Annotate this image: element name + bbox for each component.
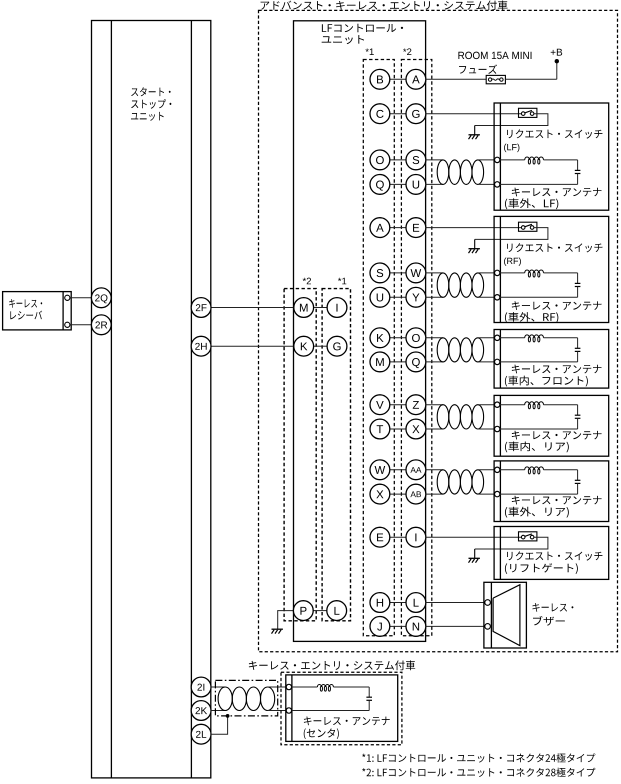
wire pin X to pin AB <box>390 493 406 495</box>
pin O (*2 connector) <box>406 328 426 348</box>
pin I (*2 connector) <box>406 527 426 547</box>
box: keyless antenna interior front <box>494 330 609 389</box>
wire A to fuse <box>426 78 486 80</box>
pin Z (*2 connector) <box>406 395 426 415</box>
request switch RF <box>519 222 537 231</box>
pin W (*1 connector) <box>370 460 390 480</box>
shield dash-dot box <box>215 680 277 716</box>
pin U (*2 connector) <box>406 175 426 195</box>
pin M (*2) <box>294 298 314 318</box>
label: request switch (liftgate) <box>507 551 602 560</box>
pin E (*2 connector) <box>406 218 426 238</box>
pin A (*1 connector) <box>370 218 390 238</box>
switch return wire to ground <box>475 537 548 549</box>
request switch LF <box>519 108 537 117</box>
wire L to buzzer <box>426 602 485 604</box>
label: start/stop unit <box>131 87 170 96</box>
pin U (*1 connector) <box>370 287 390 307</box>
wire pin Q to pin U <box>390 183 406 185</box>
label: ROOM 15A MINI fuse <box>458 52 531 59</box>
wire fuse to +B <box>505 78 556 80</box>
label: request switch (RF) <box>507 243 602 252</box>
pin B (*1 connector) <box>370 69 390 89</box>
pin AB (*2 connector) <box>406 484 426 504</box>
pin K (*1 connector) <box>370 328 390 348</box>
pin W (*2 connector) <box>406 263 426 283</box>
twisted pair 2I/2K to center antenna <box>211 686 225 688</box>
wire pin U to pin Y <box>390 296 406 298</box>
box: request switch liftgate <box>494 527 609 580</box>
label: keyless entry system <box>249 660 415 670</box>
pin E (*1 connector) <box>370 527 390 547</box>
label: request switch (LF) <box>507 129 602 138</box>
wire 2L to shield <box>211 716 228 734</box>
twisted pair wires rows VZ-TX <box>426 404 443 406</box>
keyless antenna interior front coil <box>495 335 500 340</box>
group box: request switch LF + keyless antenna exterior LF <box>494 103 609 210</box>
pin 2I <box>191 677 211 697</box>
wire N to buzzer <box>426 625 485 627</box>
box: keyless antenna interior rear <box>494 395 609 456</box>
wire to liftgate <box>426 536 522 538</box>
fuse ROOM 15A MINI <box>486 75 505 83</box>
footnote *2 <box>362 768 595 777</box>
label: keyless antenna (interior, front) <box>512 365 602 374</box>
keyless receiver box <box>3 292 72 330</box>
box: keyless antenna center <box>286 675 398 742</box>
ground at request switch RF <box>474 239 476 248</box>
wire to LF <box>426 113 522 115</box>
pin K (*2) <box>294 336 314 356</box>
wire pin E to pin I <box>390 536 406 538</box>
twisted pair wires rows SW-UY <box>426 272 443 274</box>
pin S (*2 connector) <box>406 150 426 170</box>
wire pin O to pin S <box>390 159 406 161</box>
keyless antenna interior rear coil <box>495 402 500 407</box>
pin X (*1 connector) <box>370 484 390 504</box>
wire K to G <box>314 345 328 347</box>
wire pin M to pin Q <box>390 361 406 363</box>
wire receiver to 2Q <box>70 297 92 299</box>
label: LF control unit <box>322 24 403 32</box>
pin G (*2 connector) <box>406 104 426 124</box>
center antenna coil circuit <box>292 686 318 688</box>
label: keyless antenna (interior, rear) <box>512 431 602 440</box>
label: keyless receiver <box>9 299 42 308</box>
label: keyless antenna (exterior, RF) <box>512 301 602 310</box>
outer dashed box: advanced keyless entry system <box>259 10 618 651</box>
pin L (*2 connector) <box>406 593 426 613</box>
pin 2H <box>191 336 211 356</box>
pin Q (*2 connector) <box>406 352 426 372</box>
wire M to I <box>314 307 328 309</box>
wire pin T to pin X <box>390 428 406 430</box>
wire pin K to pin O <box>390 337 406 339</box>
pin G (*1) <box>327 336 347 356</box>
wire pin V to pin Z <box>390 404 406 406</box>
pin Y (*2 connector) <box>406 287 426 307</box>
pin S (*1 connector) <box>370 263 390 283</box>
pin 2F <box>191 298 211 318</box>
connector *1 dashed box (right columns) <box>363 60 394 636</box>
switch return wire to ground <box>475 114 548 126</box>
pin Q (*1 connector) <box>370 175 390 195</box>
junction dot on shield <box>226 714 230 718</box>
connector *2 dashed box (right columns) <box>401 60 431 636</box>
label: keyless antenna (center) <box>304 716 390 725</box>
ground at pin P <box>277 628 279 631</box>
label: keyless buzzer <box>532 603 573 612</box>
label *1 (mid) <box>338 278 346 285</box>
pin J (*1 connector) <box>370 617 390 637</box>
wire pin C to pin G <box>390 113 406 115</box>
pin V (*1 connector) <box>370 395 390 415</box>
wire pin B to pin A <box>390 78 406 80</box>
dashed box: keyless entry system (center antenna) <box>281 672 402 745</box>
pin AA (*2 connector) <box>406 460 426 480</box>
pin A (*2 connector) <box>406 69 426 89</box>
wire 2H to K <box>211 345 294 347</box>
wire P to ground <box>278 611 294 629</box>
pin 2L <box>191 724 211 744</box>
pin N (*2 connector) <box>406 617 426 637</box>
box: keyless antenna exterior rear <box>494 461 609 522</box>
twisted pair wires rows KO-MQ <box>426 337 443 339</box>
pin 2R <box>91 315 111 335</box>
label *2 (top) <box>403 48 411 55</box>
label *1 (top) <box>365 48 373 55</box>
pin O (*1 connector) <box>370 150 390 170</box>
keyless buzzer <box>484 582 527 648</box>
pin 2K <box>191 701 211 721</box>
ground at request switch LF <box>474 126 476 135</box>
connector *1 dashed box (left columns) <box>322 289 350 621</box>
twisted pair wires rows WAA-XAB <box>426 469 443 471</box>
label: advanced keyless entry system title <box>261 0 508 10</box>
pin 2Q <box>91 288 111 308</box>
keyless antenna exterior rear coil <box>495 467 500 472</box>
pin I (*1) <box>327 298 347 318</box>
keyless antenna exterior RF coil <box>495 270 500 275</box>
group box: request switch RF + keyless antenna exterior RF <box>494 216 609 322</box>
wire receiver to 2R <box>70 324 92 326</box>
center antenna rings <box>286 684 291 689</box>
wire pin S to pin W <box>390 272 406 274</box>
switch return wire to ground <box>475 228 548 240</box>
twisted pair wires rows OS-QU <box>426 159 443 161</box>
wire pin H to pin L <box>390 602 406 604</box>
receiver terminal rings <box>65 295 70 300</box>
LF control unit box <box>294 21 426 642</box>
pin X (*2 connector) <box>406 419 426 439</box>
pin M (*1 connector) <box>370 352 390 372</box>
start/stop unit box <box>92 21 211 778</box>
pin P (*2) <box>293 601 313 621</box>
node +B <box>556 61 558 79</box>
wire pin A to pin E <box>390 227 406 229</box>
ground at request switch liftgate <box>474 549 476 558</box>
pin L (*1) <box>327 601 347 621</box>
pin H (*1 connector) <box>370 593 390 613</box>
request switch liftgate <box>519 532 537 541</box>
keyless antenna exterior LF coil <box>495 157 500 162</box>
pin C (*1 connector) <box>370 104 390 124</box>
wire P to L <box>313 610 327 612</box>
wire to RF <box>426 227 522 229</box>
label: keyless antenna (exterior, LF) <box>512 188 602 197</box>
wire pin W to pin AA <box>390 469 406 471</box>
label *2 (mid) <box>303 278 311 285</box>
connector *2 dashed box (left columns) <box>284 289 316 621</box>
label: keyless antenna (exterior, rear) <box>512 496 602 505</box>
wire 2F to M <box>211 307 294 309</box>
footnote *1 <box>362 753 595 762</box>
pin T (*1 connector) <box>370 419 390 439</box>
wire pin J to pin N <box>390 625 406 627</box>
